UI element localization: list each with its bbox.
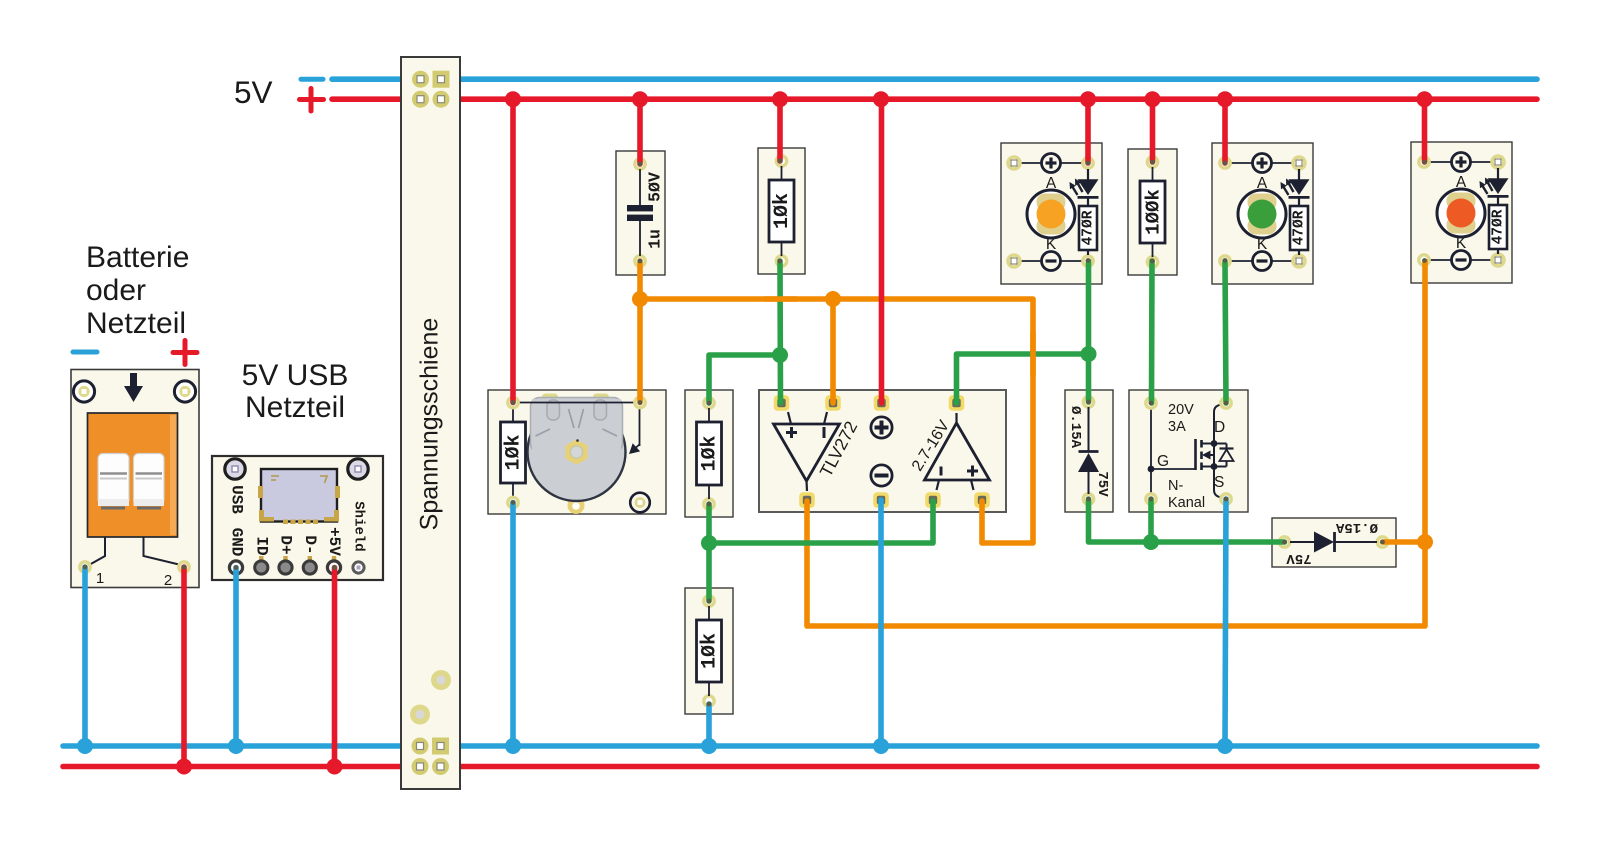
- svg-text:oder: oder: [86, 274, 146, 307]
- potentiometer screw pad: [630, 493, 650, 513]
- potentiometer pad bottom left: [508, 497, 518, 507]
- junction green node B: [701, 535, 717, 551]
- USB power module board: [212, 456, 383, 580]
- svg-text:GND: GND: [228, 528, 246, 557]
- junction blue rail x=236: [228, 738, 244, 754]
- svg-text:47ØR: 47ØR: [1491, 209, 1507, 244]
- op-amp pads: [774, 395, 790, 411]
- USB pin GND: [229, 561, 242, 574]
- svg-text:1u: 1u: [646, 229, 665, 249]
- MOSFET pads: [1146, 398, 1156, 408]
- svg-text:+5V: +5V: [325, 527, 343, 556]
- wire blue: MOSFET source to bottom blue rail: [1225, 499, 1226, 746]
- svg-text:Netzteil: Netzteil: [86, 307, 186, 340]
- wire red: USB +5V to bottom red rail: [332, 568, 338, 767]
- wire green: diode D1 bottom to MOSFET gate pad and diode D2: [1089, 499, 1285, 542]
- svg-text:47ØR: 47ØR: [1292, 210, 1308, 245]
- junction bottom red rail x=184: [176, 759, 192, 775]
- USB pad Shield: [353, 562, 364, 573]
- svg-text:D: D: [1214, 419, 1225, 436]
- wire top blue rail (GND 5V minus): [332, 76, 1537, 82]
- resistor 10k module B (divider lower): [685, 588, 733, 714]
- junction blue rail x=513: [505, 738, 521, 754]
- wire red: rail to resistor 10k top: [777, 99, 783, 161]
- MOSFET gate net line: [1150, 408, 1152, 494]
- junction blue rail x=881: [873, 738, 889, 754]
- USB pin D+: [279, 561, 292, 574]
- svg-text:1Øk: 1Øk: [699, 435, 722, 471]
- wire blue: battery pad1 to bottom blue rail: [82, 567, 88, 746]
- wire orange: capacitor bottom to potentiometer wiper / op-amp in / feedback: [637, 261, 643, 403]
- junction red rail x=1225: [1217, 91, 1233, 107]
- wire red: rail to LED1 anode: [1085, 99, 1091, 163]
- svg-text:G: G: [1157, 453, 1169, 470]
- voltage rail board Spannungsschiene: [401, 57, 460, 789]
- junction blue rail x=1225: [1217, 738, 1233, 754]
- USB connector: [261, 469, 337, 522]
- junction blue rail x=709: [701, 738, 717, 754]
- LED module 1 (orange LED, 470R): [1001, 143, 1102, 284]
- op-amp U1b triangle: [925, 423, 990, 480]
- MOSFET body diode: [1214, 443, 1227, 445]
- USB pin ID: [255, 561, 268, 574]
- USB pin D-: [303, 561, 316, 574]
- svg-text:ID: ID: [253, 536, 271, 555]
- junction red rail x=1088: [1080, 91, 1096, 107]
- MOSFET module Q1 20V 3A N-Kanal: [1129, 390, 1248, 512]
- svg-text:Ø.15A: Ø.15A: [1067, 406, 1083, 449]
- LED module 2 (green LED, 470R): [1212, 143, 1313, 284]
- junction orange node G: [1417, 534, 1433, 550]
- diode module D1 0.15A 75V (vertical): [1065, 390, 1113, 512]
- wire red: rail to LED3 anode: [1422, 99, 1428, 162]
- capacitor C 1u 50V module: [616, 151, 665, 275]
- node minus symbol top: [301, 77, 323, 82]
- junction red rail x=640: [632, 91, 648, 107]
- potentiometer wiper trace: [519, 402, 640, 404]
- LED module 3 (orange-red LED, 470R): [1411, 142, 1512, 283]
- potentiometer resistor 10k body: [512, 408, 514, 422]
- wire orange: op-amp out to LED3 / diode D2: [807, 261, 1425, 626]
- svg-text:USB: USB: [228, 485, 246, 514]
- wire red: rail to op-amp V+ pad: [879, 99, 885, 403]
- op-amp U1a triangle: [774, 424, 840, 481]
- wire blue: potentiometer to bottom blue rail: [510, 503, 516, 747]
- op-amp module TLV272 board: [759, 390, 1006, 512]
- junction red rail x=881: [873, 91, 889, 107]
- pad hole dots: [83, 159, 1427, 707]
- resistor 10k module (top, to op-amp): [758, 148, 805, 274]
- wire green: 10k A bottom to op-amp pad and 10k B: [706, 504, 712, 601]
- svg-text:75V: 75V: [1286, 550, 1312, 566]
- svg-text:Shield: Shield: [351, 501, 367, 551]
- svg-text:N-: N-: [1168, 478, 1183, 494]
- svg-text:Batterie: Batterie: [86, 241, 189, 274]
- USB pin gold stubs: [259, 556, 263, 563]
- svg-text:Netzteil: Netzteil: [245, 391, 345, 424]
- battery switch block: [88, 413, 178, 537]
- potentiometer pad left top: [508, 397, 518, 407]
- node minus symbol battery: [73, 350, 97, 355]
- junction green node C: [1081, 346, 1097, 362]
- wire red: rail to LED2 anode: [1222, 99, 1228, 163]
- svg-text:5V: 5V: [234, 74, 273, 110]
- wire bottom blue rail (GND): [63, 743, 1537, 749]
- svg-text:1Øk: 1Øk: [503, 434, 526, 470]
- junction red rail x=780: [772, 91, 788, 107]
- junction green node A: [772, 347, 788, 363]
- potentiometer module 10k: [488, 390, 666, 514]
- wire red: rail to 100k: [1150, 99, 1156, 162]
- svg-text:D+: D+: [277, 535, 295, 554]
- wire green: LED1 cathode to op-amp U1b out and diode D1: [1086, 261, 1092, 402]
- wire orange branch to op-amp pad2: [830, 299, 836, 403]
- svg-text:Kanal: Kanal: [1168, 495, 1205, 511]
- junction green node D: [1143, 534, 1159, 550]
- wire blue: USB GND to bottom blue rail: [233, 568, 239, 747]
- resistor 10k module A (divider upper): [685, 390, 733, 517]
- wire red: rail to potentiometer: [510, 99, 516, 402]
- junction orange node F: [825, 291, 841, 307]
- svg-text:Ø.15A: Ø.15A: [1335, 519, 1378, 535]
- svg-text:1: 1: [96, 570, 104, 587]
- battery lead wires to pads: [89, 537, 105, 565]
- battery pad 1: [80, 562, 90, 572]
- wire red: rail to capacitor: [637, 99, 643, 164]
- wire green: LED2 cathode to MOSFET pad: [1225, 261, 1226, 403]
- wire orange branch to diode D2 right pad: [1383, 539, 1426, 545]
- junction bottom red rail x=334.5: [327, 759, 343, 775]
- battery pad 2: [179, 562, 189, 572]
- wire orange overlay at green crossing: [1030, 332, 1036, 376]
- wire green: 100k bottom to MOSFET drain pad: [1149, 261, 1155, 403]
- wire red: battery pad2 to bottom red rail: [181, 567, 187, 767]
- svg-text:Spannungsschiene: Spannungsschiene: [416, 318, 444, 531]
- svg-text:3A: 3A: [1168, 419, 1186, 435]
- svg-text:1ØØk: 1ØØk: [1143, 189, 1165, 235]
- junction blue rail x=85: [77, 738, 93, 754]
- wire top red rail (5V plus): [332, 96, 1537, 102]
- wire bottom red rail (+5V): [63, 764, 1537, 770]
- svg-text:D-: D-: [301, 535, 319, 554]
- svg-text:5V USB: 5V USB: [242, 359, 349, 392]
- junction orange node E: [632, 291, 648, 307]
- svg-text:2: 2: [164, 572, 172, 589]
- wire green: resistor 10k top to op-amp pad1 and 10k A: [777, 261, 783, 403]
- op-amp module power plus symbol: [871, 417, 892, 438]
- svg-text:5ØV: 5ØV: [646, 172, 665, 202]
- battery polarity arrow: [130, 373, 137, 386]
- potentiometer pad right top (wiper): [635, 397, 645, 407]
- node plus symbol battery: [173, 350, 197, 355]
- svg-text:20V: 20V: [1168, 402, 1194, 418]
- resistor 100k module: [1128, 149, 1177, 275]
- junction red rail x=1424.5: [1417, 91, 1433, 107]
- junction red rail x=1152.5: [1145, 91, 1161, 107]
- USB pin +5V: [327, 561, 340, 574]
- potentiometer body: [542, 394, 558, 403]
- wire blue: 10k B to bottom blue rail: [706, 704, 712, 746]
- svg-text:1Øk: 1Øk: [699, 633, 722, 669]
- op-amp module power minus symbol: [871, 465, 892, 486]
- node plus symbol top: [300, 97, 324, 102]
- svg-text:47ØR: 47ØR: [1081, 210, 1097, 245]
- MOSFET symbol: [1194, 439, 1197, 470]
- junction red rail x=513: [505, 91, 521, 107]
- wire blue: op-amp V- pad to bottom blue rail: [878, 500, 884, 746]
- svg-text:1Øk: 1Øk: [771, 193, 794, 229]
- diode module D2 0.15A 75V (horizontal): [1272, 518, 1396, 567]
- svg-text:S: S: [1214, 474, 1224, 491]
- battery module board: [71, 370, 199, 590]
- svg-text:75V: 75V: [1094, 471, 1110, 497]
